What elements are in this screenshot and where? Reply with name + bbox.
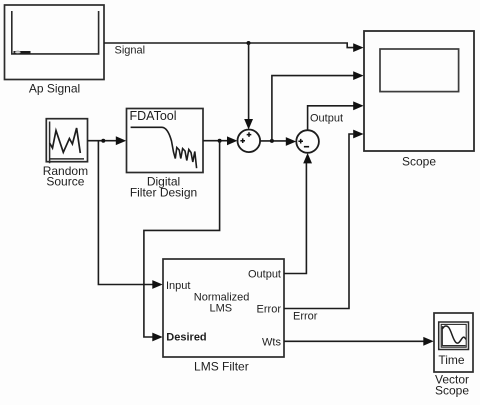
node junction on S1 output [270, 139, 274, 143]
sum S2 [296, 130, 319, 153]
block Random Source [43, 119, 88, 189]
arrow into sum S2 left [286, 137, 296, 146]
arrow into sum S1 left [227, 136, 237, 145]
wire sum S1 out to sum S2 [260, 140, 287, 142]
sum S1 [238, 130, 261, 153]
svg-text:Time: Time [438, 353, 465, 367]
svg-text:Ap Signal: Ap Signal [29, 82, 80, 96]
arrow into Scope port4 [353, 130, 363, 139]
arrow into LMS Input [152, 280, 162, 289]
wire LMS Wts to Vector Scope [284, 340, 425, 342]
wire LMS Output up to sum S2 bottom [284, 163, 306, 274]
block LMS Filter [163, 259, 284, 374]
svg-text:Wts: Wts [262, 336, 281, 348]
svg-text:FDATool: FDATool [130, 109, 177, 123]
wire junction down to sum S1 top [248, 43, 250, 121]
arrow into Scope port2 [353, 71, 363, 80]
wire branch noise to LMS Input [98, 141, 153, 285]
svg-text:LMS: LMS [209, 302, 232, 314]
arrow into Vector Scope [423, 337, 433, 346]
block Vector Scope [434, 313, 473, 398]
arrow into Scope port1 [353, 43, 363, 52]
svg-text:Error: Error [257, 304, 282, 316]
arrow into sum S1 top [244, 119, 253, 130]
svg-text:Desired: Desired [166, 332, 206, 344]
node junction on filtered-noise wire [218, 139, 222, 143]
wire LMS Error to Scope port4 [284, 134, 355, 309]
arrow into FDATool [116, 136, 126, 145]
svg-text:Output: Output [248, 268, 281, 280]
wire Signal: Ap Signal out to Scope port1 [104, 43, 355, 48]
svg-text:Filter Design: Filter Design [130, 186, 197, 200]
block Digital Filter Design (FDATool) [127, 109, 204, 200]
svg-text:Scope: Scope [435, 384, 469, 398]
block Scope [364, 31, 474, 169]
svg-text:Input: Input [166, 280, 190, 292]
svg-text:Output: Output [310, 113, 343, 125]
svg-text:Scope: Scope [402, 155, 436, 169]
node junction on noise wire [101, 139, 105, 143]
svg-text:Error: Error [293, 310, 318, 322]
wire sum S2 output up to Scope port3 [308, 106, 355, 130]
wire branch filtered noise to LMS Desired [144, 141, 220, 337]
wire Random Source out to FDATool [88, 140, 118, 142]
node junction on Signal wire [247, 41, 251, 45]
arrow into sum S2 bottom [303, 153, 312, 163]
svg-text:Signal: Signal [115, 45, 146, 57]
arrow into Scope port3 [353, 101, 363, 110]
svg-text:LMS Filter: LMS Filter [194, 360, 249, 374]
svg-text:Source: Source [46, 174, 84, 188]
arrow into LMS Desired [152, 333, 162, 342]
wire branch S1 output up to Scope port2 [272, 76, 355, 141]
wire FDATool out to sum S1 [203, 140, 228, 142]
block Ap Signal [5, 5, 105, 96]
